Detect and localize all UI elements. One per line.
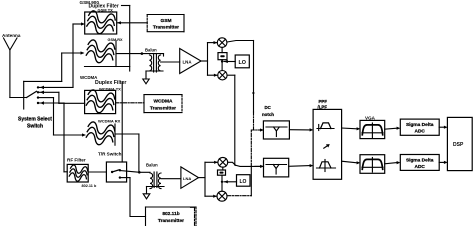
node balun2 input junction bbox=[138, 171, 141, 174]
wire VGA2 to ADC2 bbox=[385, 163, 397, 164]
wire ADC2 to DSP bbox=[439, 161, 444, 163]
svg-text:/LPF: /LPF bbox=[318, 104, 328, 109]
wire TX down to 802.11b transmitter bbox=[130, 178, 146, 217]
GSM transmitter U1 bbox=[147, 15, 184, 32]
802.11b transmitter U3 bbox=[146, 207, 197, 226]
op-amp LNA2 bbox=[181, 167, 199, 188]
arrow at contact4 bbox=[40, 101, 44, 105]
wire WCDMA RX riser bbox=[53, 98, 55, 135]
svg-text:RF Filter: RF Filter bbox=[67, 158, 86, 163]
wire ADC1 to DSP bbox=[439, 126, 444, 128]
mixer M2 bbox=[218, 71, 227, 80]
wire LNA1 output bbox=[201, 60, 208, 62]
WCDMA RX filter F4 bbox=[85, 121, 115, 147]
wire riser from mixer4 dash-dot up bbox=[250, 130, 252, 166]
wire contact2 to WCDMA TX riser bbox=[40, 91, 59, 93]
svg-text:WCDMA: WCDMA bbox=[154, 98, 173, 104]
wire to GSM RX riser bbox=[24, 80, 62, 82]
arrow into GSM TX filter right bbox=[117, 21, 121, 24]
wire GSM transmitter to filter bbox=[117, 22, 147, 24]
filter PPF/LPF U4 bbox=[313, 109, 342, 179]
svg-text:LNA: LNA bbox=[183, 176, 191, 181]
svg-text:Sigma Delta: Sigma Delta bbox=[406, 122, 434, 128]
wire balun2 to LNA2 bbox=[161, 178, 181, 180]
wire mixer3 to phase2 bbox=[222, 167, 224, 170]
oscillator LO1 bbox=[235, 55, 249, 68]
phase shifter P1 bbox=[218, 53, 227, 60]
arrow at contact1 bbox=[40, 86, 44, 90]
svg-text:ADC: ADC bbox=[414, 129, 425, 135]
svg-text:Transmitter: Transmitter bbox=[153, 25, 179, 31]
svg-text:Sigma Delta: Sigma Delta bbox=[406, 157, 434, 163]
wire mixer4 output dash-dot bbox=[228, 195, 252, 197]
svg-text:System Select: System Select bbox=[18, 117, 52, 123]
wire GSM TX riser bbox=[72, 24, 74, 87]
ADC1 sigma delta bbox=[400, 119, 439, 135]
GSM TX filter F1 bbox=[85, 10, 117, 36]
svg-text:WCDMA RX: WCDMA RX bbox=[98, 119, 121, 124]
DC notch filter N2 bbox=[264, 158, 289, 177]
wire balun1 to LNA1 bbox=[161, 61, 180, 63]
svg-text:ADC: ADC bbox=[414, 164, 425, 170]
wire PPF to VGA1 bbox=[342, 127, 357, 130]
antenna bbox=[4, 38, 18, 98]
svg-text:Antenna: Antenna bbox=[2, 33, 21, 38]
svg-text:802.11 b: 802.11 b bbox=[82, 184, 97, 188]
wire WCDMA TX feed bbox=[59, 102, 85, 104]
node balun1 input junction bbox=[141, 52, 144, 55]
svg-text:Balun: Balun bbox=[146, 163, 158, 168]
wire B corner to DC notch2 bbox=[235, 165, 260, 166]
wire contact3 to WCDMA RX riser bbox=[40, 97, 54, 99]
svg-text:DSP: DSP bbox=[453, 142, 464, 148]
balun T2 bbox=[147, 172, 165, 194]
wire contact1 to GSM TX riser bbox=[40, 86, 74, 88]
arrow into WCDMA RX filter bbox=[82, 133, 86, 136]
wire into mixer M4 bbox=[205, 195, 217, 197]
svg-text:LNA: LNA bbox=[183, 60, 193, 65]
wire mixer1 output bbox=[227, 41, 254, 43]
RF filter F5 bbox=[67, 164, 88, 182]
wire LO2 to junction bbox=[224, 181, 237, 183]
stray corner bottom left bbox=[191, 207, 195, 226]
system select switch label bbox=[18, 117, 52, 130]
wire DC notch1 to PPF bbox=[289, 129, 309, 131]
wire into mixer M2 bbox=[208, 74, 218, 76]
wire WCDMA transmitter to filter dash-dot bbox=[116, 102, 144, 104]
PPF label bbox=[318, 99, 328, 109]
wire mixer feed vertical 2 bbox=[204, 162, 206, 196]
svg-text:PPF: PPF bbox=[319, 99, 328, 104]
DC notch label bbox=[262, 105, 274, 117]
svg-text:notch: notch bbox=[262, 112, 274, 117]
wire junction to balun2 bbox=[139, 171, 150, 173]
wire into mixer M3 bbox=[205, 161, 218, 163]
ground balun T1 bbox=[143, 79, 149, 84]
wire mixer2 output bbox=[227, 74, 235, 76]
node LO2 junction bbox=[221, 181, 223, 183]
wire GSM TX feed bbox=[73, 23, 83, 25]
wire PPF to VGA2 bbox=[342, 161, 357, 163]
ADC2 sigma delta bbox=[400, 155, 439, 171]
ground balun T2 bbox=[143, 194, 150, 199]
wire DC notch2 to PPF bbox=[289, 165, 310, 168]
oscillator LO2 bbox=[237, 175, 251, 187]
wire mixer feed vertical bbox=[207, 43, 209, 76]
DSP U5 bbox=[447, 117, 472, 170]
wire VGA1 to ADC1 bbox=[385, 128, 397, 129]
switch contact dots bbox=[37, 86, 39, 104]
svg-text:DC: DC bbox=[265, 105, 272, 110]
svg-text:GSM: GSM bbox=[161, 18, 172, 24]
wire RF filter riser bbox=[63, 103, 65, 172]
wire contact4 to RF filter riser bbox=[40, 102, 65, 104]
svg-text:VGA: VGA bbox=[365, 115, 376, 120]
svg-text:LO: LO bbox=[239, 60, 247, 66]
svg-text:Transmitter: Transmitter bbox=[150, 105, 176, 111]
wire WCDMA TX riser bbox=[58, 92, 60, 103]
wire riser from mixer4 bbox=[250, 166, 252, 195]
wire into mixer M1 bbox=[208, 42, 218, 44]
node LO1 junction bbox=[221, 60, 223, 62]
svg-text:Switch: Switch bbox=[27, 124, 43, 130]
balun T1 bbox=[146, 54, 163, 80]
WCDMA transmitter U2 bbox=[144, 95, 182, 113]
GSM duplex label leader bbox=[122, 6, 130, 72]
wire GSM RX riser bbox=[61, 53, 63, 81]
wire vertical B bbox=[234, 75, 236, 165]
GSM RX filter F2 bbox=[85, 39, 130, 66]
wire switch frame vertical bbox=[23, 81, 25, 109]
mixer M1 bbox=[217, 38, 227, 48]
wire WCDMA RX feed bbox=[54, 134, 85, 136]
wire mixer3 output bbox=[228, 162, 236, 165]
arrow into GSM TX filter bbox=[81, 22, 85, 25]
DC notch filter N1 bbox=[263, 121, 289, 139]
svg-text:Balun: Balun bbox=[145, 48, 157, 53]
wire LNA2 output bbox=[199, 177, 206, 179]
wire T/R switch RX output bbox=[120, 171, 139, 173]
wire GSM RX filter to balun bbox=[116, 53, 164, 55]
wire GSM RX feed bbox=[62, 52, 83, 54]
mixer M3 bbox=[218, 157, 228, 167]
amplifier VGA2 bbox=[360, 155, 385, 174]
node dot on vertical A bbox=[252, 92, 254, 94]
wire WCDMA RX filter output bbox=[115, 133, 139, 135]
wire dash-dot into DC notch1 bbox=[251, 129, 260, 131]
svg-text:GSM RX: GSM RX bbox=[108, 38, 123, 42]
arrow into GSM RX filter bbox=[81, 51, 85, 54]
wire LO1 to junction bbox=[224, 61, 235, 63]
wire mixer1 to phase1 bbox=[221, 47, 223, 52]
wire phase2 to mixer4 bbox=[221, 175, 223, 191]
wire phase1 to mixer2 bbox=[221, 60, 223, 71]
wire RF filter feed bbox=[64, 171, 67, 173]
wire antenna feed bbox=[10, 97, 27, 99]
T/R switch S2 bbox=[106, 162, 126, 182]
wire T/R switch TX contact bbox=[120, 177, 130, 179]
svg-text:LO: LO bbox=[240, 179, 247, 185]
mixer M4 bbox=[217, 191, 227, 201]
svg-text:Transmitter: Transmitter bbox=[158, 218, 184, 224]
arrow at contact2 bbox=[40, 91, 44, 95]
wire WCDMA RX down riser bbox=[138, 134, 140, 172]
wire vertical A solid bbox=[253, 41, 255, 113]
wire RF filter to T/R switch bbox=[88, 171, 106, 173]
op-amp LNA1 bbox=[180, 49, 201, 74]
WCDMA duplex label leader bbox=[121, 82, 123, 162]
wire vertical A dash-dot bbox=[253, 112, 255, 130]
phase shifter P2 bbox=[218, 170, 226, 175]
wire into DC notch2 arrow bbox=[255, 165, 264, 167]
svg-text:T/R Switch: T/R Switch bbox=[98, 152, 122, 157]
system select switch pole bbox=[27, 91, 37, 97]
WCDMA TX filter F3 bbox=[85, 89, 116, 115]
svg-text:802.11b: 802.11b bbox=[162, 211, 179, 217]
amplifier VGA1 bbox=[360, 120, 385, 138]
